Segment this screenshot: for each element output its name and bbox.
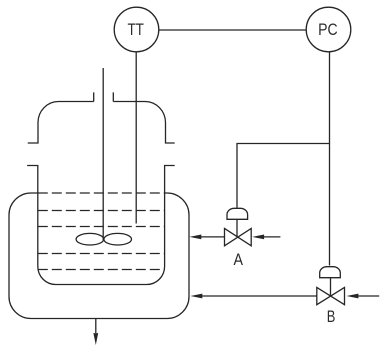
valve B feed line	[358, 295, 379, 297]
instrument bubble TT	[114, 7, 159, 52]
jacket	[9, 193, 189, 319]
valve B actuator dome	[320, 267, 341, 278]
drain arrowhead	[93, 333, 98, 345]
svg-text:B: B	[327, 307, 336, 326]
svg-text:TT: TT	[127, 20, 144, 39]
wire TT to PC	[159, 29, 306, 31]
drain line	[95, 319, 97, 334]
svg-text:A: A	[234, 250, 244, 269]
tank body	[27, 166, 175, 285]
instrument bubble PC	[306, 7, 351, 52]
valve A feed line	[264, 236, 281, 238]
liquid level dashes row 1	[38, 192, 165, 194]
valve B outlet line to jacket	[202, 295, 317, 297]
liquid level dashes row 5	[38, 269, 165, 271]
vessel lid	[28, 92, 175, 143]
valve B body	[317, 287, 345, 304]
wire PC down to valve B actuator	[329, 52, 331, 266]
valve B stem	[330, 278, 332, 296]
valve B outlet arrowhead	[190, 294, 202, 299]
liquid level dashes row 4	[38, 253, 165, 255]
impeller blades	[76, 233, 131, 245]
valve A stem	[236, 219, 238, 237]
valve A body	[225, 229, 252, 246]
valve A actuator dome	[227, 208, 248, 219]
wire branch to valve A actuator	[237, 144, 330, 208]
wire TT sensor into tank	[135, 52, 137, 224]
svg-text:PC: PC	[318, 20, 338, 39]
liquid level dashes row 2	[38, 210, 165, 212]
agitator shaft	[102, 68, 104, 241]
liquid level dashes row 3	[38, 226, 165, 228]
valve A outlet line to jacket	[201, 236, 225, 238]
valve A feed arrowhead	[252, 235, 264, 240]
valve A outlet arrowhead	[189, 235, 201, 240]
valve B feed arrowhead	[347, 294, 359, 299]
